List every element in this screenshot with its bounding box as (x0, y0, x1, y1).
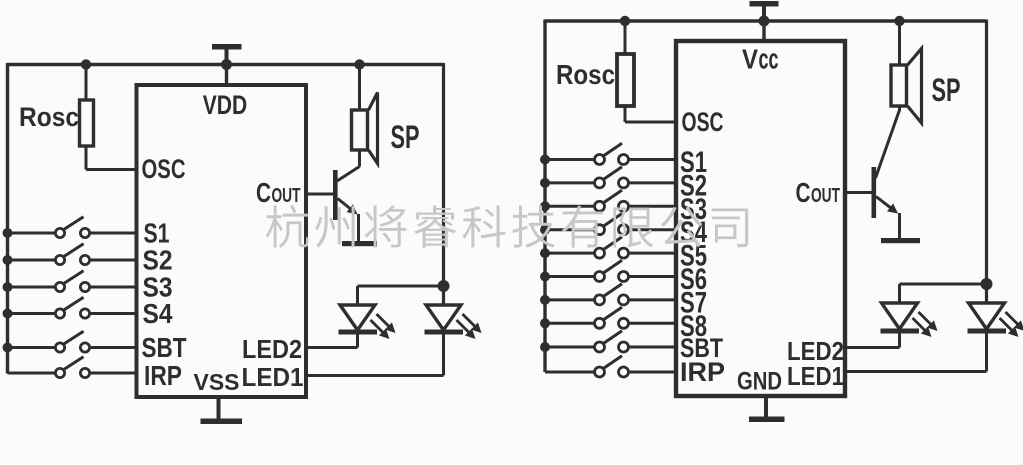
node: switch bus junction dot S7 right (540, 295, 550, 305)
wire: bus to switch S1 right (545, 158, 594, 161)
wire: switch S3 to IC pin left (90, 286, 138, 289)
wire: Vcc stub into IC right (762, 21, 765, 42)
svg-text:LED1: LED1 (787, 361, 844, 391)
wire: switch S4 to IC pin right (629, 228, 678, 231)
wire: switch IRP to IC pin left (90, 372, 138, 375)
IC U2 body (right circuit) (676, 41, 845, 396)
wire: switch SBT to IC pin left (90, 346, 138, 349)
wire: switch S1 to IC pin right (629, 158, 678, 161)
wire: Q2 emitter lead down right (898, 213, 901, 238)
wire: LED top link left (358, 285, 444, 288)
node: switch bus junction dot S2 left (3, 255, 13, 265)
switch S2 (left circuit) (55, 255, 64, 264)
speaker SP (left circuit) (352, 110, 368, 150)
svg-text:Rosc: Rosc (19, 102, 79, 132)
switch S6 (right circuit) (595, 272, 605, 282)
wire: bus to switch S1 left (8, 232, 56, 235)
wire: switch S6 to IC pin right (629, 275, 678, 278)
wire: switch S1 to IC pin left (90, 232, 138, 235)
wire: supply to speaker SP left (358, 65, 361, 112)
node: switch bus junction dot S6 right (540, 272, 550, 282)
node: Rosc top junction dot right (620, 16, 630, 26)
wire: switch S2 to IC pin left (90, 259, 138, 262)
node: switch bus junction dot S4 right (540, 225, 550, 235)
svg-text:S4: S4 (143, 298, 173, 329)
svg-text:VDD: VDD (203, 90, 248, 120)
svg-text:cc: cc (759, 44, 779, 76)
switch S4 (left circuit) (55, 309, 64, 318)
LED D4 (right circuit) (882, 303, 918, 329)
switch SBT (right circuit) (595, 342, 605, 352)
resistor Rosc (right circuit) (617, 54, 634, 106)
node: speaker junction dot right (894, 16, 904, 26)
transistor Q2 (right circuit) (872, 167, 877, 218)
wire: Cout pin to transistor base left (306, 193, 333, 196)
wire: right circuit left switch bus (543, 20, 546, 373)
LED D1 (left circuit) (426, 305, 461, 330)
wire: LED top link right (900, 283, 987, 286)
wire: switch S5 to IC pin right (629, 252, 678, 255)
wire: Rosc bottom lead to OSC pin right (624, 106, 627, 122)
wire: switch S3 to IC pin right (629, 205, 678, 208)
switch S3 (right circuit) (595, 201, 605, 211)
node: VDD rail junction dot left (221, 59, 232, 70)
node: switch bus junction dot S4 left (3, 309, 13, 319)
svg-text:IRP: IRP (680, 357, 725, 387)
svg-text:SP: SP (932, 72, 961, 108)
node: Vcc rail junction dot right (759, 16, 770, 27)
switch S8 (right circuit) (595, 318, 605, 328)
wire: switch S4 to IC pin left (90, 312, 138, 315)
ground symbol below Q1 emitter left (342, 241, 377, 246)
node: switch bus junction dot S1 left (3, 228, 13, 238)
node: switch bus junction dot S3 right (540, 201, 550, 211)
node: LED link junction dot right (981, 278, 993, 290)
wire: bus to switch S7 right (545, 298, 594, 301)
wire: LED2 cathode to IC left (356, 334, 359, 348)
wire: speaker to Q2 collector right (898, 106, 901, 111)
wire: left circuit left switch bus (6, 63, 9, 374)
wire: right circuit right vertical rail (to LED1 anode) (985, 20, 988, 304)
svg-text:LED2: LED2 (242, 334, 302, 364)
wire: switch SBT to IC pin right (629, 346, 678, 349)
switch S4 (right circuit) (595, 225, 605, 235)
wire: Rosc bottom lead to OSC pin left (85, 146, 88, 170)
wire: bus to switch SBT left (8, 346, 56, 349)
node: switch bus junction dot SBT right (540, 342, 550, 352)
svg-text:GND: GND (737, 368, 782, 396)
wire: LED2 anode lead right (898, 284, 901, 303)
node: LED link junction dot left (438, 280, 450, 292)
power symbol (VDD supply) left circuit (212, 44, 242, 50)
node: switch bus junction dot S2 right (540, 178, 550, 188)
wire: supply to speaker SP right (898, 21, 901, 66)
svg-text:SBT: SBT (142, 332, 187, 363)
svg-text:VSS: VSS (194, 369, 240, 395)
wire: bus to switch IRP right (545, 371, 594, 374)
power symbol (Vcc supply) right circuit (750, 1, 779, 7)
switch S2 (right circuit) (595, 178, 605, 188)
wire: left circuit right vertical rail (to LED1 anode) (442, 63, 445, 305)
wire: Q1 emitter lead down left (357, 214, 360, 241)
wire: bus to switch S3 left (8, 286, 56, 289)
svg-text:Rosc: Rosc (556, 59, 615, 90)
svg-text:LED1: LED1 (242, 362, 304, 392)
svg-text:IRP: IRP (144, 360, 182, 391)
switch S1 (left circuit) (55, 228, 64, 237)
wire: LED1 cathode to IC right (985, 332, 988, 372)
ground symbol below Q2 emitter right (881, 238, 920, 243)
wire: LED2 anode lead left (356, 286, 359, 305)
LED D3 (right circuit) (969, 303, 1005, 329)
svg-text:OSC: OSC (142, 154, 186, 184)
node: Rosc top junction dot left (81, 59, 91, 69)
wire: bus to switch SBT right (545, 346, 594, 349)
wire: switch S2 to IC pin right (629, 181, 678, 184)
wire: bus to switch S5 right (545, 252, 594, 255)
node: switch bus junction dot S3 left (3, 282, 13, 292)
wire: switch S7 to IC pin right (629, 298, 678, 301)
switch IRP (right circuit) (595, 367, 605, 377)
ground symbol below IC left (VSS) (217, 397, 221, 420)
wire: bus to switch S4 right (545, 228, 594, 231)
LED D2 (left circuit) (340, 305, 375, 330)
wire: bus to switch S6 right (545, 275, 594, 278)
svg-text:C: C (796, 177, 811, 208)
wire: bus to switch S2 left (8, 259, 56, 262)
IC U1 body (left circuit) (137, 85, 307, 397)
node: switch bus junction dot S5 right (540, 248, 550, 258)
node: switch bus junction dot S1 right (540, 155, 550, 165)
wire: bus to switch S4 left (8, 312, 56, 315)
wire: LED2 cathode to IC right (898, 332, 901, 348)
wire: bus to switch S3 right (545, 205, 594, 208)
wire: bus to switch S8 right (545, 322, 594, 325)
speaker SP (right circuit) (891, 65, 907, 106)
switch SBT (left circuit) (55, 343, 64, 352)
transistor Q1 (left circuit) (333, 170, 338, 220)
wire: LED1 cathode to IC left (442, 334, 445, 376)
wire: right circuit top supply rail (545, 19, 987, 22)
watermark text (decorative) (266, 205, 748, 248)
switch S5 (right circuit) (595, 248, 605, 258)
resistor Rosc (left circuit) (80, 100, 94, 146)
switch S3 (left circuit) (55, 282, 64, 291)
node: speaker junction dot left (354, 59, 364, 69)
svg-text:V: V (742, 44, 758, 75)
wire: VDD stub into IC left (225, 65, 228, 88)
wire: switch IRP to IC pin right (629, 371, 678, 374)
svg-text:C: C (256, 177, 271, 208)
svg-text:SP: SP (391, 119, 420, 155)
wire: speaker to Q1 collector left (358, 150, 361, 167)
svg-text:OUT: OUT (811, 185, 840, 207)
wire: Cout pin to transistor base right (845, 191, 872, 194)
ground symbol below IC right (GND) (764, 396, 768, 417)
wire: left circuit top supply rail (8, 63, 444, 66)
node: switch bus junction dot S8 right (540, 318, 550, 328)
wire: Rosc top lead left (85, 65, 88, 102)
svg-text:OSC: OSC (682, 107, 724, 137)
switch IRP (left circuit) (55, 368, 64, 377)
wire: bus to switch S2 right (545, 181, 594, 184)
svg-text:OUT: OUT (272, 185, 301, 207)
node: switch bus junction dot SBT left (3, 343, 13, 353)
switch S7 (right circuit) (595, 295, 605, 305)
switch S1 (right circuit) (595, 155, 605, 165)
wire: Rosc top lead right (624, 21, 627, 55)
wire: switch S8 to IC pin right (629, 322, 678, 325)
wire: bus to switch IRP left (8, 372, 56, 375)
